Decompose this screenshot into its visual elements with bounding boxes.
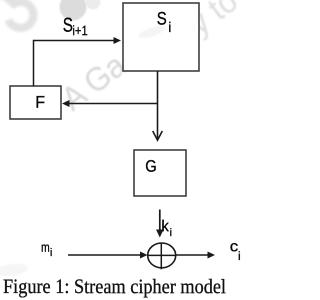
svg-text:i: i <box>238 249 241 263</box>
svg-text:i: i <box>170 227 172 239</box>
XOR adder circle <box>148 243 176 268</box>
wire S_i+1 horizontal into S box <box>34 40 115 42</box>
box S_i <box>123 3 199 71</box>
open arrowhead into G <box>153 131 163 140</box>
svg-text:Figure 1: Stream cipher model: Figure 1: Stream cipher model <box>3 276 226 298</box>
svg-text:m: m <box>41 240 50 255</box>
wire branch to F <box>69 103 159 105</box>
wire XOR output <box>176 254 209 256</box>
arrowhead into S box <box>114 37 122 44</box>
wire vertical down to F box <box>33 40 35 86</box>
watermark logo circle top-center <box>60 0 87 21</box>
svg-text:A Ga: A Ga <box>55 46 133 117</box>
XOR plus vertical <box>160 243 162 269</box>
arrowhead m_i <box>140 252 148 259</box>
watermark logo swirl top-left <box>0 0 34 28</box>
svg-text:i: i <box>168 19 171 35</box>
arrowhead into F box <box>62 100 70 107</box>
wire m_i into XOR <box>68 254 141 256</box>
svg-text:G: G <box>145 158 157 176</box>
svg-text:F: F <box>35 93 45 112</box>
XOR plus horizontal <box>148 254 176 256</box>
watermark faint "te" inside S box <box>137 23 166 40</box>
watermark logo faint circle <box>86 0 101 10</box>
wire from S box bottom down to G <box>157 71 159 140</box>
box F <box>10 86 61 119</box>
watermark faint wisp bottom-left <box>0 262 29 278</box>
svg-text:i+1: i+1 <box>72 23 87 38</box>
svg-text:i: i <box>50 247 52 259</box>
arrowhead k_i <box>156 230 164 238</box>
wire k_i from G down to XOR <box>159 210 161 233</box>
svg-text:k: k <box>161 218 169 235</box>
svg-text:S: S <box>157 9 167 29</box>
arrowhead output <box>208 252 216 259</box>
box G <box>134 150 186 196</box>
